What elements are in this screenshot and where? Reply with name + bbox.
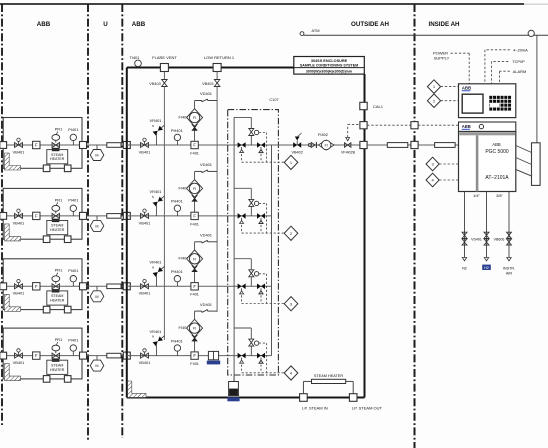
svg-text:PI401: PI401 [68,198,78,203]
block valve 2 stream 2 (solenoid) [257,213,261,219]
svg-text:C107: C107 [269,97,278,102]
inlet ball valve VB401 stream 4 [141,353,145,358]
sample take-off unit 4 enclosure box [3,328,82,379]
svg-text:HEATER: HEATER [50,299,65,303]
svg-text:FI: FI [325,144,328,148]
solenoid signal dashed lines stream 3 [259,273,267,275]
bleed valve stream 4 [250,346,252,355]
block valve 2 stream 4 (solenoid) [257,353,261,359]
solenoid signal dashed lines stream 2 [259,202,267,204]
svg-text:PI401: PI401 [68,337,78,342]
stream 2 sample line inside enclosure [127,215,272,217]
inlet ball valve VB401 stream 1 [141,143,145,148]
filter F unit 1 [33,141,40,148]
analyzer vent drop line [536,35,538,143]
stream selection panel dash-dot border [228,110,279,375]
check valve above filter stream 1 [194,124,196,141]
svg-text:F: F [35,284,38,289]
utility gas double valve H2 [484,232,489,235]
stream select signal diamond 2 [284,226,298,240]
inlet ball valve VB401 stream 3 [141,284,145,289]
check valve after VB402 [311,142,315,147]
AH wall square sample line [411,141,418,148]
sample take-off unit 2 enclosure box [3,188,82,239]
svg-text:1/4": 1/4" [473,193,480,198]
cal dashed line inside AH to analyzer [418,124,458,126]
check valve above filter stream 2 [194,195,196,212]
bleed loop to header stream 3 [250,259,252,270]
enclosure name plate 304SS ENCLOSURE SAMPLE CONDITIONING SYSTEM [294,57,365,75]
flare vent header valve VB403 [162,80,168,84]
controller keypad [489,96,492,99]
svg-text:M: M [95,154,98,158]
low return header valve VB403 [214,80,220,84]
svg-text:VD401: VD401 [200,162,212,167]
isolation valve VB401 unit 2 [15,213,19,218]
unit 1 inlet connection square on boundary [0,142,7,149]
isolation valve VB401 unit 4 [15,353,19,358]
svg-text:VB606: VB606 [494,237,505,241]
inlet ball valve VB401 stream 2 [141,213,145,218]
unit 2 outlet connection square [80,212,87,219]
unit 1 outlet connection square [80,142,87,149]
svg-text:CAL1: CAL1 [373,104,384,109]
heated sample transport line inside AH [435,143,456,148]
svg-text:F: F [35,214,38,219]
drain pot highlighted label [227,397,239,401]
filter F unit 3 [33,283,40,290]
sample take-off unit 1 enclosure box [3,118,82,169]
sample line outside enclosure [367,144,458,146]
svg-text:PH401: PH401 [171,269,183,274]
svg-text:LP. STEAM OUT: LP. STEAM OUT [352,405,382,410]
bleed loop to header stream 1 [250,117,252,128]
utility gas line INSTR. [508,192,510,258]
selected sample header [271,145,273,356]
svg-text:VB401: VB401 [139,360,151,365]
svg-text:INSIDE AH: INSIDE AH [428,21,460,28]
svg-text:FI: FI [193,327,196,331]
enclosure wall connection square unit 4 [123,352,130,359]
svg-text:VR401: VR401 [150,189,162,194]
svg-text:VD401: VD401 [200,91,212,96]
block valve 1 stream 4 (solenoid) [238,353,242,359]
heated transport line segment unit 4 [107,353,121,358]
unit 4 inlet connection square on boundary [0,352,7,359]
sample pump M unit 4 [96,356,98,360]
svg-text:VB401: VB401 [13,291,25,296]
svg-text:STEAM: STEAM [51,224,63,228]
svg-text:M: M [95,295,98,299]
enclosure steam heater element [302,381,304,393]
svg-text:AT–2101A: AT–2101A [485,175,509,181]
sample pump M unit 2 [96,216,98,220]
svg-text:H2: H2 [484,266,489,270]
bleed collection header [233,117,235,381]
power supply dashed line [451,52,470,54]
svg-text:PI401: PI401 [68,127,78,132]
bleed loop to header stream 4 [250,328,252,339]
FLARE VENT connection square [160,64,168,72]
unit 3 inlet connection square on boundary [0,283,7,290]
svg-text:VB401: VB401 [13,360,25,365]
LP steam outlet square [349,394,357,402]
sample take-off unit 3 enclosure box [3,259,82,310]
block valve 2 stream 1 (solenoid) [257,142,261,148]
analyzer vent manifold [532,143,541,186]
stream 4 sample line inside enclosure [127,355,272,357]
svg-text:TCP/IP: TCP/IP [512,59,525,64]
unit 3 transport line to enclosure [87,285,127,287]
unit 2 wall hatch [5,224,21,241]
enclosure wall connection square unit 3 [123,283,130,290]
isolation valve VB401 unit 3 [15,284,19,289]
svg-text:ALARM: ALARM [513,69,526,74]
svg-text:PH401: PH401 [171,338,183,343]
svg-text:TI401: TI401 [130,55,140,60]
svg-text:PI401: PI401 [68,268,78,273]
block valve 1 stream 1 (solenoid) [238,142,242,148]
svg-text:PR1: PR1 [55,126,63,131]
unit 3 wall hatch [5,294,21,311]
TCP/IP dashed line [491,60,508,62]
svg-text:HEATER: HEATER [50,157,65,161]
stream 3 sample line inside enclosure [127,285,272,287]
filter F401 stream 2 [191,212,198,219]
svg-text:ATM: ATM [312,28,320,33]
check valve above filter stream 3 [194,265,196,282]
enclosure left wall [126,68,128,398]
unit 1 wall hatch [5,153,21,170]
membrane separator stream 4 [208,351,218,359]
steam heater box unit 2 [47,221,68,235]
svg-text:VR401: VR401 [150,260,162,265]
unit 2 steam connection squares [43,236,50,243]
bleed valve stream 1 [250,136,252,145]
enclosure wall square cal line [360,122,367,129]
filter F unit 2 [33,212,40,219]
svg-text:M: M [95,225,98,229]
ATM vent loop seal circle [528,30,534,36]
svg-text:ABB: ABB [492,142,501,147]
stream signal diamond 3 at analyzer [426,157,439,171]
svg-text:VB401: VB401 [13,149,25,154]
solenoid signal dashed lines stream 1 [259,132,267,134]
enclosure wall square sample line [360,141,367,148]
unit 1 steam connection squares [43,165,50,172]
svg-text:F: F [35,353,38,358]
svg-text:PR1: PR1 [55,268,63,273]
block valve 1 stream 2 (solenoid) [238,213,242,219]
vent manifold connection lines [516,146,532,153]
utility gas line H2 [486,192,488,258]
svg-text:VR401: VR401 [150,329,162,334]
drain line from bleed header [233,375,235,382]
enclosure wall connection square unit 1 [123,142,130,149]
enclosure top wall [127,67,294,69]
svg-text:VR401: VR401 [150,118,162,123]
stream signal diamond 4 at analyzer [426,173,439,187]
svg-text:ABB: ABB [462,86,472,91]
check valve above filter stream 4 [194,335,196,352]
svg-text:F401: F401 [190,293,199,297]
bleed valve stream 3 [250,277,252,286]
stream select signal diamond 4 [284,366,298,380]
enclosure bottom wall [127,397,365,399]
svg-text:ABB: ABB [132,21,146,28]
svg-text:3/8": 3/8" [496,193,503,198]
heated transport line segment unit 3 [107,284,121,289]
filter F401 stream 3 [191,283,198,290]
LOW RETURN connection square [213,64,221,72]
svg-text:FI402: FI402 [318,132,328,137]
unit 4 sample line [7,355,83,357]
svg-text:N: N [152,124,154,128]
svg-text:PR1: PR1 [55,337,63,342]
svg-text:3000(W)x600(H)x300(D)mm: 3000(W)x600(H)x300(D)mm [306,70,352,74]
svg-text:F: F [193,353,196,358]
membrane separator highlighted label [207,361,220,365]
unit 2 inlet connection square on boundary [0,213,7,220]
steam heater box unit 1 [47,150,68,164]
sample pump M unit 3 [96,286,98,290]
svg-text:F: F [193,143,196,148]
stream signal diamond 2 at controller [427,94,440,108]
calibration gas connection CAL1 [360,102,367,109]
svg-text:N2: N2 [462,266,467,270]
svg-text:STEAM: STEAM [51,363,63,367]
svg-text:VB403: VB403 [202,82,213,86]
selected sample line to analyzer [272,144,361,146]
enclosure right wall [364,74,366,398]
svg-text:VS401: VS401 [471,237,482,241]
boundary line OUTSIDE AH / INSIDE AH [414,4,416,448]
svg-text:VB401: VB401 [13,220,25,225]
enclosure wall connection square unit 2 [123,212,130,219]
solenoid signal dashed lines stream 4 [259,342,267,344]
svg-text:SUPPLY: SUPPLY [434,56,450,61]
boundary line between U and ABB enclosure column [121,4,123,438]
svg-text:F401: F401 [190,151,199,155]
top border line [0,3,524,5]
svg-text:ABB: ABB [462,124,471,129]
unit 3 sample line [7,285,83,287]
unit 4 transport line to enclosure [87,355,127,357]
block valve 1 stream 3 (solenoid) [238,284,242,290]
bypass needle valve VFI402B [345,143,348,148]
steam heater box unit 4 [47,360,68,374]
heated transport line segment unit 2 [107,214,121,219]
controller unit (master controller) [459,84,516,118]
4-20mA dashed line [485,49,510,51]
svg-text:VB403: VB403 [149,82,160,86]
svg-text:U: U [103,21,108,28]
svg-text:ABB: ABB [37,21,51,28]
unit 3 outlet connection square [80,283,87,290]
svg-text:304SS ENCLOSURE: 304SS ENCLOSURE [311,59,348,63]
unit 2 sample line [7,215,83,217]
svg-text:F: F [193,214,196,219]
stream 1 sample line inside enclosure [127,144,272,146]
LP steam inlet square [300,394,308,402]
svg-text:FI: FI [193,187,196,191]
analyzer main body ABB PGC 5000 AT-2101A [459,132,516,192]
svg-text:FLARE VENT: FLARE VENT [152,55,177,60]
svg-text:AIR: AIR [506,271,513,275]
svg-text:FI: FI [193,116,196,120]
unit 4 steam connection squares [43,376,50,383]
AH wall square cal line [411,122,418,129]
svg-text:SAMPLE CONDITIONING SYSTEM: SAMPLE CONDITIONING SYSTEM [300,63,358,67]
utility gas line N2 [464,192,466,258]
unit 2 transport line to enclosure [87,215,127,217]
sample pump M unit 1 [96,145,98,149]
svg-text:VB402: VB402 [291,150,302,154]
svg-text:PH401: PH401 [171,199,183,204]
svg-text:LP. STEAM IN: LP. STEAM IN [302,405,328,410]
calibration dashed line [347,124,349,137]
stream signal diamond 1 at controller [427,80,440,94]
isolation valve VB401 unit 1 [15,143,19,148]
flare vent riser [163,87,165,341]
stream select signal diamond 3 [284,297,298,311]
svg-text:VB401: VB401 [139,291,151,296]
svg-text:STEAM: STEAM [51,294,63,298]
svg-text:F: F [193,284,196,289]
utility gas double valve N2 [462,232,467,235]
svg-text:HEATER: HEATER [50,368,65,372]
svg-text:HEATER: HEATER [50,228,65,232]
svg-text:PR1: PR1 [55,197,63,202]
sample shutoff valve VB402 (solenoid) [293,142,297,148]
heated sample transport line outside [387,143,408,148]
boundary line between ABB and U columns [87,4,89,440]
gas label H2 highlighted [482,265,491,270]
svg-text:STEAM HEATER: STEAM HEATER [314,374,344,378]
bleed valve stream 2 [250,207,252,216]
svg-text:N: N [152,195,154,199]
analyzer top strip [459,122,516,132]
filter F unit 4 [33,352,40,359]
unit 4 outlet connection square [80,352,87,359]
bleed loop to header stream 2 [250,188,252,199]
svg-text:FI: FI [193,257,196,261]
svg-text:VB401: VB401 [139,220,151,225]
svg-text:LOW RETURN 1: LOW RETURN 1 [204,55,235,60]
stream select signal diamond 1 [284,155,298,169]
filter F401 stream 1 [191,141,198,148]
unit 1 transport line to enclosure [87,144,127,146]
svg-text:4–20mA: 4–20mA [513,47,528,52]
svg-text:F401: F401 [190,222,199,226]
filter F401 stream 4 [191,352,198,359]
svg-text:VD401: VD401 [200,233,212,238]
svg-text:F: F [35,143,38,148]
enclosure bottom-left wall hatch [128,381,146,397]
svg-text:INSTR.: INSTR. [503,266,515,270]
svg-text:VB401: VB401 [139,149,151,154]
svg-text:OUTSIDE AH: OUTSIDE AH [351,21,389,28]
svg-text:N: N [152,265,154,269]
svg-text:VFI402B: VFI402B [341,150,356,154]
heated transport line segment unit 1 [107,143,121,148]
analyzer strip indicator circle [479,124,483,128]
low return riser [216,87,218,312]
svg-text:M: M [95,364,98,368]
cal dashed line outside enclosure [367,124,411,126]
unit 3 steam connection squares [43,306,50,313]
steam heater box unit 3 [47,291,68,305]
svg-text:N: N [152,335,154,339]
battery-limit boundary line left (ABB scope) [1,4,3,427]
ATM vent line [304,34,548,36]
block valve 2 stream 3 (solenoid) [257,284,261,290]
svg-text:PGC 5000: PGC 5000 [485,149,509,155]
drain pot [229,382,239,396]
controller display [462,94,483,113]
unit 4 wall hatch [5,364,21,381]
unit 1 sample line [7,144,83,146]
svg-text:F401: F401 [190,362,199,366]
utility gas double valve INSTR. [507,232,512,235]
svg-text:PH401: PH401 [171,128,183,133]
svg-text:STEAM: STEAM [51,153,63,157]
svg-text:VD401: VD401 [200,302,212,307]
alarm dashed line [500,70,510,72]
